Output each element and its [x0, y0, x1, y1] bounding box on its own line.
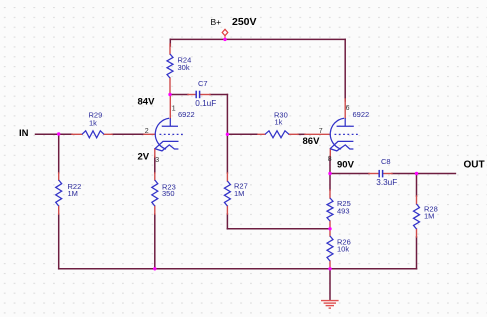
svg-text:C7: C7 — [198, 79, 208, 88]
svg-text:2V: 2V — [138, 152, 150, 163]
svg-text:3.3uF: 3.3uF — [376, 178, 397, 187]
svg-text:250V: 250V — [232, 16, 257, 28]
svg-text:0.1uF: 0.1uF — [195, 99, 216, 108]
svg-text:1k: 1k — [275, 117, 283, 126]
svg-text:3: 3 — [155, 157, 159, 164]
svg-text:90V: 90V — [337, 160, 355, 171]
svg-text:1M: 1M — [68, 189, 78, 198]
svg-text:1M: 1M — [424, 212, 434, 221]
svg-text:350: 350 — [162, 189, 175, 198]
svg-text:IN: IN — [19, 128, 29, 139]
svg-text:1k: 1k — [89, 118, 97, 127]
svg-text:6: 6 — [346, 105, 350, 112]
svg-text:1: 1 — [172, 105, 176, 112]
svg-text:7: 7 — [319, 128, 323, 135]
svg-text:6922: 6922 — [353, 110, 370, 119]
svg-text:493: 493 — [337, 206, 350, 215]
svg-text:1M: 1M — [234, 189, 244, 198]
svg-text:C8: C8 — [381, 157, 391, 166]
svg-text:OUT: OUT — [464, 160, 485, 171]
svg-text:10k: 10k — [337, 245, 349, 254]
svg-text:2: 2 — [145, 128, 149, 135]
svg-text:84V: 84V — [138, 96, 156, 107]
svg-text:8: 8 — [328, 156, 332, 163]
svg-text:30k: 30k — [178, 63, 190, 72]
svg-text:86V: 86V — [303, 136, 321, 147]
svg-text:B+: B+ — [211, 17, 222, 27]
svg-text:6922: 6922 — [178, 110, 195, 119]
